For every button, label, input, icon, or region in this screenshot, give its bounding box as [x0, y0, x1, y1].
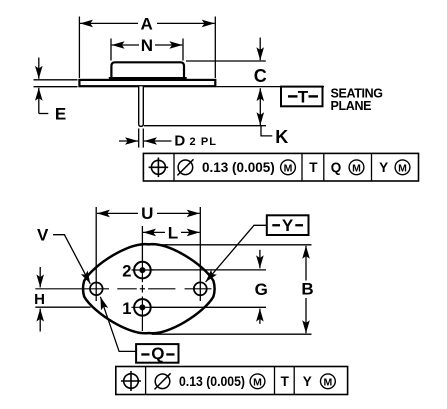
svg-text:Y: Y	[303, 374, 312, 389]
svg-text:K: K	[275, 127, 288, 147]
datum T box	[281, 87, 323, 107]
svg-text:M: M	[324, 376, 333, 388]
flange	[79, 80, 215, 86]
svg-text:M: M	[398, 162, 407, 174]
dim E	[34, 58, 78, 124]
svg-text:H: H	[34, 291, 45, 308]
dim L extension line	[141, 226, 143, 262]
diameter symbol	[177, 159, 193, 175]
dim H	[34, 267, 90, 332]
svg-text:M: M	[352, 162, 361, 174]
dim U extension line left	[95, 207, 97, 301]
M circle	[281, 160, 296, 175]
svg-text:A: A	[141, 14, 153, 33]
svg-text:2: 2	[122, 262, 131, 280]
center line vertical	[141, 285, 143, 331]
svg-text:Q: Q	[331, 160, 342, 175]
svg-text:U: U	[141, 204, 153, 223]
seating plane label	[331, 87, 383, 114]
svg-text:0.13 (0.005): 0.13 (0.005)	[202, 160, 275, 175]
package outline	[83, 244, 215, 333]
dim D	[119, 129, 217, 150]
dim K	[144, 88, 288, 147]
position symbol	[149, 158, 169, 178]
dim A extension line right	[214, 17, 216, 79]
dim N extension line left	[110, 39, 112, 61]
dim U extension line right	[199, 207, 201, 301]
svg-text:T: T	[309, 160, 318, 175]
svg-text:Y: Y	[282, 216, 294, 235]
tolerance table top	[143, 153, 418, 181]
svg-text:B: B	[301, 279, 313, 298]
cap base lip	[109, 77, 187, 80]
dim G	[151, 250, 268, 324]
dim U	[97, 204, 200, 223]
dim C	[186, 38, 267, 86]
dim A extension line left	[78, 17, 80, 79]
svg-text:Q: Q	[151, 344, 164, 363]
svg-text:L: L	[168, 223, 178, 242]
svg-text:T: T	[281, 374, 290, 389]
svg-text:D: D	[174, 132, 185, 149]
pin 2	[122, 261, 153, 282]
center line horizontal	[35, 288, 211, 290]
dim B	[152, 245, 314, 334]
tolerance table bottom	[116, 367, 348, 395]
svg-text:M: M	[284, 162, 293, 174]
dim N extension line right	[182, 39, 184, 61]
diameter symbol	[155, 373, 171, 389]
dim A	[80, 14, 215, 33]
dim N	[112, 36, 183, 55]
mounting hole left	[90, 283, 103, 296]
position symbol	[121, 371, 141, 391]
lead	[139, 86, 144, 126]
svg-text:N: N	[141, 36, 153, 55]
svg-text:0.13 (0.005): 0.13 (0.005)	[179, 374, 245, 389]
datum Y box	[206, 215, 309, 282]
svg-text:M: M	[253, 376, 262, 388]
seating plane line	[216, 86, 324, 88]
svg-text:Y: Y	[379, 160, 388, 175]
svg-text:T: T	[298, 87, 309, 106]
mounting hole right	[194, 282, 207, 295]
svg-text:E: E	[55, 104, 66, 123]
svg-text:PLANE: PLANE	[331, 99, 372, 113]
svg-text:G: G	[255, 280, 268, 299]
cap	[111, 62, 184, 78]
pin 1	[122, 297, 153, 319]
svg-text:1: 1	[122, 300, 131, 318]
svg-text:V: V	[37, 225, 49, 244]
svg-text:C: C	[254, 66, 267, 86]
svg-text:2 PL: 2 PL	[190, 136, 218, 148]
label V	[37, 225, 90, 283]
datum Q box	[100, 297, 178, 363]
dim L	[143, 223, 200, 242]
